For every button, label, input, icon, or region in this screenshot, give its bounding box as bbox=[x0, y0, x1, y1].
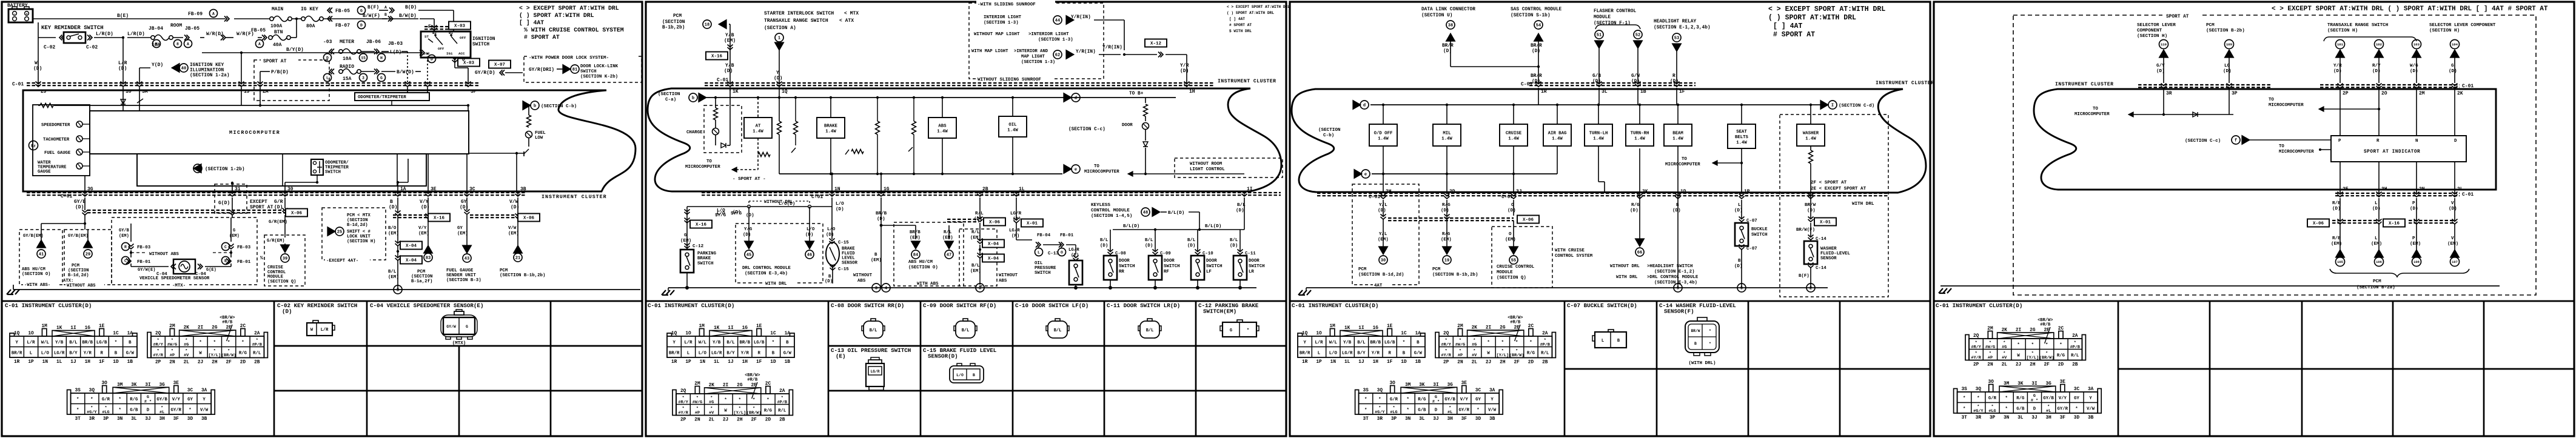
svg-text:Y: Y bbox=[15, 340, 18, 345]
svg-text:2K: 2K bbox=[2457, 91, 2463, 96]
svg-text:(BR/W): (BR/W) bbox=[221, 353, 236, 358]
svg-text:OFF: OFF bbox=[438, 47, 444, 51]
svg-text:(F): (F) bbox=[1011, 234, 1019, 239]
svg-text:30: 30 bbox=[1381, 259, 1386, 264]
svg-text:SPEEDOMETER: SPEEDOMETER bbox=[41, 123, 70, 128]
svg-text:3A: 3A bbox=[201, 388, 207, 393]
svg-text:3: 3 bbox=[397, 288, 399, 293]
svg-text:(EM): (EM) bbox=[1441, 237, 1452, 242]
wire 2A bbox=[260, 71, 261, 83]
svg-text:(SECTION C-c): (SECTION C-c) bbox=[2185, 139, 2221, 144]
svg-text:B/L: B/L bbox=[1100, 238, 1109, 243]
svg-text:*: * bbox=[2031, 343, 2034, 348]
svg-text:(SECTION C-c): (SECTION C-c) bbox=[1068, 127, 1105, 132]
svg-text:B/L: B/L bbox=[388, 270, 397, 274]
svg-text:-WITH ABS-: -WITH ABS- bbox=[24, 283, 50, 288]
microcomputer U1 bbox=[90, 111, 469, 154]
page 3 border frame bbox=[1290, 2, 1930, 436]
svg-text:*: * bbox=[118, 397, 121, 402]
abs check components bbox=[876, 121, 880, 134]
svg-text:2J: 2J bbox=[198, 360, 203, 365]
svg-text:X-06: X-06 bbox=[1523, 218, 1534, 223]
svg-text:R/L: R/L bbox=[2071, 354, 2079, 359]
svg-text:3P: 3P bbox=[2232, 91, 2238, 96]
svg-text:FB-01: FB-01 bbox=[137, 260, 151, 265]
svg-text:#P: #P bbox=[1458, 353, 1463, 358]
svg-text:2N: 2N bbox=[694, 418, 700, 423]
svg-text:A: A bbox=[187, 42, 189, 46]
svg-text:1.4W: 1.4W bbox=[1634, 136, 1645, 141]
svg-text:2F: 2F bbox=[226, 360, 232, 365]
svg-text:#Y/R: #Y/R bbox=[1971, 356, 1981, 360]
svg-text:[ ] 4AT: [ ] 4AT bbox=[519, 19, 544, 26]
svg-text:B: B bbox=[973, 373, 975, 377]
svg-text:(SECTION: (SECTION bbox=[68, 268, 89, 273]
svg-text:*: * bbox=[1709, 342, 1711, 346]
svg-text:1F: 1F bbox=[1387, 360, 1393, 365]
wire B/L(D) distribution bbox=[1113, 229, 1244, 230]
svg-text:1H: 1H bbox=[85, 360, 91, 365]
svg-text:*: * bbox=[724, 398, 726, 403]
svg-text:B/Y(D): B/Y(D) bbox=[286, 47, 304, 53]
svg-text:3P: 3P bbox=[103, 417, 109, 422]
svg-text:(SECTION: (SECTION bbox=[411, 274, 432, 279]
dashed box WITH POWER DOOR LOCK SYSTEM bbox=[524, 56, 642, 82]
svg-text:GY/R: GY/R bbox=[1459, 408, 1470, 413]
svg-text:1A: 1A bbox=[785, 331, 791, 336]
svg-text:1O: 1O bbox=[685, 331, 691, 336]
svg-text:3Q: 3Q bbox=[89, 388, 95, 393]
svg-text:FUEL: FUEL bbox=[535, 131, 546, 136]
svg-text:1P: 1P bbox=[1316, 360, 1322, 365]
svg-text:B/L: B/L bbox=[1230, 238, 1238, 243]
connector X-03 lower bbox=[458, 59, 480, 67]
wire 31/30 drops bbox=[232, 183, 233, 193]
svg-text:Y: Y bbox=[203, 397, 206, 402]
svg-text:(SECTION: (SECTION bbox=[347, 218, 368, 223]
svg-text:Y/B: Y/B bbox=[725, 63, 734, 68]
svg-text:P: P bbox=[2412, 201, 2415, 206]
svg-text:(D): (D) bbox=[1187, 244, 1195, 248]
svg-text:2B: 2B bbox=[2072, 363, 2078, 368]
svg-text:3S: 3S bbox=[1962, 387, 1968, 392]
svg-text:3K: 3K bbox=[2018, 382, 2024, 386]
svg-text:PCM: PCM bbox=[1358, 267, 1367, 272]
svg-text:2J: 2J bbox=[723, 418, 728, 423]
svg-text:DOOR: DOOR bbox=[1122, 123, 1133, 128]
svg-text:15: 15 bbox=[361, 56, 366, 60]
svg-text:(D): (D) bbox=[2223, 69, 2232, 74]
svg-text:L: L bbox=[1038, 250, 1040, 254]
section 1-2b box bbox=[137, 154, 426, 186]
svg-text:Y/R(IN): Y/R(IN) bbox=[1076, 50, 1096, 55]
svg-text:3N: 3N bbox=[2004, 416, 2010, 420]
svg-text:3R: 3R bbox=[1377, 417, 1383, 422]
svg-text:G/R: G/R bbox=[1988, 396, 1997, 401]
svg-text:2F: 2F bbox=[2044, 363, 2050, 368]
svg-text:3G: 3G bbox=[1447, 383, 1453, 388]
cruise control module dashed box bbox=[1492, 227, 1552, 288]
svg-text:W/G: W/G bbox=[2410, 64, 2418, 68]
node C-01 pin 1P bbox=[1739, 194, 1745, 199]
svg-text:R: R bbox=[2376, 139, 2380, 144]
wire pin drops into cluster bbox=[38, 83, 39, 105]
svg-text:C: C bbox=[124, 259, 127, 263]
svg-text:1P: 1P bbox=[28, 360, 34, 365]
svg-text:105: 105 bbox=[2337, 260, 2343, 264]
svg-text:9: 9 bbox=[1677, 287, 1679, 291]
svg-text:Y/G: Y/G bbox=[744, 227, 753, 232]
node C-01 pin 30 bbox=[283, 191, 288, 197]
svg-text:PCM: PCM bbox=[1432, 267, 1441, 272]
svg-text:WITHOUT ROOM: WITHOUT ROOM bbox=[1190, 162, 1223, 167]
svg-text:SEAT: SEAT bbox=[1736, 130, 1747, 134]
svg-text:G: G bbox=[360, 8, 363, 13]
svg-text:2M: 2M bbox=[2419, 91, 2425, 96]
svg-text:DRL CONTROL MODULE: DRL CONTROL MODULE bbox=[742, 266, 791, 271]
connector C-09 door switch icon bbox=[956, 321, 975, 338]
svg-text:R/L: R/L bbox=[1541, 351, 1549, 356]
svg-text:Y/R: Y/R bbox=[2333, 64, 2342, 68]
svg-text:X-01: X-01 bbox=[1027, 222, 1038, 227]
svg-text:3H: 3H bbox=[1447, 417, 1453, 422]
svg-text:R/Y: R/Y bbox=[2372, 64, 2381, 68]
svg-text:D: D bbox=[360, 23, 363, 27]
svg-text:B/W(D): B/W(D) bbox=[399, 13, 417, 19]
svg-text:3D: 3D bbox=[1475, 417, 1481, 422]
svg-text:WITH DRL: WITH DRL bbox=[765, 282, 787, 287]
rail e arrow bbox=[1361, 170, 1370, 178]
svg-text:1B: 1B bbox=[127, 360, 133, 365]
svg-text:*: * bbox=[1963, 407, 1965, 412]
svg-text:C-07 BUCKLE SWITCH(D): C-07 BUCKLE SWITCH(D) bbox=[1567, 302, 1637, 309]
svg-text:B/Y: B/Y bbox=[726, 351, 735, 356]
svg-text:1K: 1K bbox=[1344, 326, 1350, 331]
svg-text:3I: 3I bbox=[145, 383, 151, 388]
svg-text:3S: 3S bbox=[75, 388, 81, 393]
svg-text:BUCKLE: BUCKLE bbox=[1751, 227, 1768, 232]
svg-text:2K: 2K bbox=[184, 326, 190, 331]
svg-text:ROOM: ROOM bbox=[170, 23, 182, 28]
svg-text:Y: Y bbox=[673, 340, 676, 345]
ground rail bbox=[1940, 285, 2500, 287]
svg-text:45: 45 bbox=[746, 253, 751, 258]
svg-text:ST: ST bbox=[424, 35, 429, 39]
svg-text:3Q: 3Q bbox=[1377, 388, 1383, 393]
svg-text:L/R: L/R bbox=[684, 340, 693, 345]
svg-text:1L: 1L bbox=[714, 360, 720, 365]
svg-text:R/B: R/B bbox=[2332, 236, 2341, 241]
svg-text:GY/W: GY/W bbox=[446, 325, 456, 329]
svg-text:B/W(F): B/W(F) bbox=[363, 13, 380, 19]
svg-text:1P: 1P bbox=[1744, 189, 1750, 194]
svg-text:%: % bbox=[260, 256, 263, 261]
svg-text:3P: 3P bbox=[1990, 416, 1996, 420]
svg-text:B/L(D): B/L(D) bbox=[1123, 224, 1139, 229]
svg-text:1.4W: 1.4W bbox=[1593, 136, 1604, 141]
svg-text:1L: 1L bbox=[56, 360, 62, 365]
svg-text:*: * bbox=[2017, 343, 2019, 348]
node C-01 pin 1R bbox=[1536, 82, 1541, 87]
svg-text:1K: 1K bbox=[733, 89, 739, 94]
svg-text:B: B bbox=[786, 340, 789, 345]
svg-text:CRUISE: CRUISE bbox=[1506, 131, 1522, 136]
svg-text:#W/G: #W/G bbox=[693, 400, 702, 405]
svg-text:COMPONENT: COMPONENT bbox=[2137, 28, 2162, 33]
svg-text:62: 62 bbox=[1055, 53, 1060, 58]
svg-text:< > EXCEPT SPORT AT:WITH DRL: < > EXCEPT SPORT AT:WITH DRL bbox=[1227, 5, 1290, 9]
svg-text:2D: 2D bbox=[240, 360, 246, 365]
svg-text:(SECTION Q): (SECTION Q) bbox=[1497, 276, 1526, 280]
svg-text:2A: 2A bbox=[1542, 331, 1548, 336]
svg-text:ABS HU/CM: ABS HU/CM bbox=[22, 267, 45, 272]
svg-text:BR/B: BR/B bbox=[740, 340, 751, 345]
svg-text:X-04: X-04 bbox=[988, 242, 999, 247]
connector C-02 key reminder switch icon bbox=[307, 323, 332, 336]
svg-text:83: 83 bbox=[426, 256, 431, 261]
svg-text:B/W(D): B/W(D) bbox=[397, 70, 414, 75]
svg-text:B/L: B/L bbox=[870, 328, 877, 333]
svg-text:IG KEY: IG KEY bbox=[301, 7, 318, 12]
svg-text:1.4W: 1.4W bbox=[825, 129, 836, 134]
svg-text:(D): (D) bbox=[1180, 68, 1189, 74]
svg-text:>HEADLIGHT SWITCH: >HEADLIGHT SWITCH bbox=[1647, 264, 1692, 269]
connector C-13 oil pressure switch icon bbox=[866, 363, 884, 386]
svg-text:JB-04: JB-04 bbox=[149, 26, 163, 31]
svg-text:3T: 3T bbox=[75, 417, 81, 422]
svg-text:1K: 1K bbox=[714, 326, 720, 331]
svg-text:CONTROL MODULE: CONTROL MODULE bbox=[1091, 208, 1130, 213]
svg-text:V: V bbox=[2451, 236, 2454, 241]
svg-text:2L: 2L bbox=[709, 418, 715, 423]
charge warning circuit bbox=[704, 105, 742, 153]
wire Y(D) ignition key illumination bbox=[139, 68, 140, 83]
connector C-01 block 2x pin grid bbox=[1969, 339, 2082, 360]
svg-text:RR: RR bbox=[1119, 270, 1124, 274]
svg-text:#R/B: #R/B bbox=[222, 320, 233, 325]
svg-text:3B: 3B bbox=[520, 187, 526, 192]
svg-text:VEHICLE SPEEDOMETER SENSOR: VEHICLE SPEEDOMETER SENSOR bbox=[139, 276, 210, 281]
svg-text:1O: 1O bbox=[1316, 331, 1322, 336]
svg-text:DOOR: DOOR bbox=[1206, 259, 1217, 264]
svg-text:X-16: X-16 bbox=[696, 223, 707, 228]
svg-text:2M: 2M bbox=[694, 382, 700, 386]
svg-text:(SECTION C-b): (SECTION C-b) bbox=[541, 104, 577, 109]
svg-text:(D): (D) bbox=[1145, 244, 1153, 248]
svg-text:LG/B: LG/B bbox=[1384, 340, 1395, 345]
svg-text:DOOR: DOOR bbox=[1249, 259, 1259, 264]
svg-text:< > EXCEPT SPORT AT:WITH DRL: < > EXCEPT SPORT AT:WITH DRL ( ) SPORT A… bbox=[2272, 5, 2548, 13]
svg-text:W/L: W/L bbox=[1329, 340, 1337, 345]
svg-text:3O: 3O bbox=[1390, 381, 1396, 386]
svg-text:PCM: PCM bbox=[673, 14, 682, 19]
svg-text:2L: 2L bbox=[2002, 363, 2008, 368]
svg-text:< ATX: < ATX bbox=[839, 18, 854, 24]
svg-text:(D): (D) bbox=[2449, 207, 2457, 211]
svg-text:2D: 2D bbox=[1528, 360, 1534, 365]
svg-text:#R/Y: #R/Y bbox=[1441, 343, 1451, 348]
svg-text:LG/R: LG/R bbox=[1009, 228, 1020, 233]
svg-text:3S: 3S bbox=[1363, 388, 1369, 393]
connector C-14 washer fluid-level sensor icon bbox=[1685, 321, 1719, 353]
svg-text:G/W: G/W bbox=[1414, 351, 1423, 356]
svg-text:1H: 1H bbox=[1189, 89, 1195, 94]
svg-text:*: * bbox=[739, 398, 741, 403]
svg-text:WITH ABS: WITH ABS bbox=[917, 282, 939, 287]
svg-text:B(E): B(E) bbox=[117, 13, 129, 19]
svg-text:1H: 1H bbox=[1373, 360, 1379, 365]
svg-text:PCM: PCM bbox=[2373, 279, 2381, 284]
svg-text:X-06: X-06 bbox=[291, 211, 303, 216]
fuse MAIN 100A bbox=[234, 18, 270, 19]
svg-text:(EM): (EM) bbox=[2410, 242, 2421, 247]
svg-text:(D): (D) bbox=[118, 66, 127, 71]
svg-text:BRAKE: BRAKE bbox=[824, 124, 838, 128]
dashed box PCM ATX:WITHOUT ABS bbox=[64, 230, 112, 285]
svg-text:LG/B: LG/B bbox=[754, 340, 765, 345]
svg-text:G/B: G/B bbox=[1592, 74, 1601, 79]
svg-text:b: b bbox=[692, 96, 694, 101]
connector C-04 vehicle speedometer sensor icon bbox=[443, 317, 475, 334]
svg-text:V/Y: V/Y bbox=[172, 397, 181, 402]
svg-text:B-1d,2d): B-1d,2d) bbox=[347, 223, 368, 228]
svg-text:3L: 3L bbox=[131, 417, 137, 422]
svg-text:*: * bbox=[766, 398, 769, 403]
dashed box ABS HU/CM bbox=[19, 230, 62, 285]
svg-text:MAP LIGHT: MAP LIGHT bbox=[1021, 55, 1045, 59]
svg-text:(D): (D) bbox=[274, 205, 283, 210]
svg-text:(EM): (EM) bbox=[1505, 237, 1516, 242]
node C-01 pin 2J bbox=[36, 82, 41, 87]
svg-text:(EM): (EM) bbox=[2447, 242, 2458, 247]
svg-text:#R/B: #R/B bbox=[1510, 320, 1521, 325]
svg-text:(SECTION S-1b): (SECTION S-1b) bbox=[1511, 13, 1551, 18]
svg-text:2A: 2A bbox=[2072, 334, 2078, 339]
svg-text:3F: 3F bbox=[173, 417, 179, 422]
svg-text:1I: 1I bbox=[1247, 187, 1253, 192]
svg-text:LEVEL: LEVEL bbox=[842, 256, 855, 261]
node C-01 pin 1L bbox=[1014, 191, 1019, 197]
svg-text:3: 3 bbox=[362, 76, 364, 80]
svg-text:2P: 2P bbox=[1973, 363, 1979, 368]
svg-text:TO: TO bbox=[1094, 164, 1099, 169]
svg-text:*: * bbox=[199, 340, 201, 345]
svg-text:C-01: C-01 bbox=[12, 82, 24, 87]
svg-text:3E: 3E bbox=[2060, 380, 2066, 385]
svg-text:ABS HU/CM: ABS HU/CM bbox=[908, 260, 933, 265]
svg-text:(D): (D) bbox=[1807, 208, 1816, 213]
svg-text:1J: 1J bbox=[728, 360, 733, 365]
svg-text:(SECTION 1-2a): (SECTION 1-2a) bbox=[190, 73, 230, 78]
svg-text:2P: 2P bbox=[680, 418, 686, 423]
svg-text:L/R(D): L/R(D) bbox=[96, 31, 113, 37]
connector C-01 block 2x pin grid bbox=[1439, 336, 1552, 358]
svg-text:L: L bbox=[326, 76, 329, 80]
wire L/R(D) to pin 1O bbox=[122, 38, 124, 83]
svg-text:2O: 2O bbox=[2381, 91, 2387, 96]
svg-text:C-08 DOOR SWITCH RR(D): C-08 DOOR SWITCH RR(D) bbox=[831, 302, 904, 309]
svg-text:METER: METER bbox=[340, 39, 354, 45]
svg-text:B/Y: B/Y bbox=[69, 351, 78, 356]
cluster inner rail bbox=[54, 105, 468, 106]
svg-text:V/Y: V/Y bbox=[2059, 396, 2067, 401]
svg-text:3K: 3K bbox=[131, 383, 137, 388]
node C-01 pin 3A bbox=[137, 82, 143, 87]
ground G1 bbox=[13, 289, 640, 290]
svg-text:D: D bbox=[2033, 407, 2036, 412]
svg-text:3M: 3M bbox=[2004, 382, 2010, 386]
svg-text:GY: GY bbox=[457, 226, 463, 231]
svg-text:29: 29 bbox=[86, 253, 90, 257]
svg-text:(BR/W): (BR/W) bbox=[2039, 356, 2054, 360]
svg-text:2M: 2M bbox=[1457, 324, 1463, 329]
svg-text:2L: 2L bbox=[184, 360, 190, 365]
svg-text:C-01: C-01 bbox=[717, 78, 728, 83]
svg-text:1C: 1C bbox=[1401, 331, 1407, 336]
without room light control dashed box bbox=[1175, 158, 1283, 177]
svg-text:1M: 1M bbox=[41, 324, 47, 329]
svg-text:V: V bbox=[2451, 201, 2454, 206]
svg-text:X-03: X-03 bbox=[454, 24, 466, 29]
svg-text:D: D bbox=[147, 408, 150, 413]
svg-text:R: R bbox=[1388, 351, 1391, 356]
svg-text:(D): (D) bbox=[2156, 69, 2165, 74]
svg-text:4: 4 bbox=[885, 287, 887, 291]
svg-text:R/L: R/L bbox=[253, 351, 261, 356]
svg-text:21: 21 bbox=[515, 256, 520, 261]
svg-text:KEYLESS: KEYLESS bbox=[1091, 203, 1110, 208]
svg-text:1Q: 1Q bbox=[782, 89, 788, 94]
fuse MIL 1.4W bbox=[1433, 124, 1461, 146]
svg-text:(SECTION 1-3): (SECTION 1-3) bbox=[1038, 38, 1073, 42]
svg-text:L/O: L/O bbox=[699, 351, 707, 356]
svg-text:V/Y: V/Y bbox=[418, 226, 427, 231]
svg-text:B(F): B(F) bbox=[1799, 274, 1810, 279]
svg-text:(D): (D) bbox=[2410, 69, 2418, 74]
svg-text:2: 2 bbox=[1810, 287, 1812, 291]
svg-text:-EXCEPT 4AT-: -EXCEPT 4AT- bbox=[326, 259, 358, 264]
svg-text:GY/W(E): GY/W(E) bbox=[138, 268, 155, 273]
svg-text:1D: 1D bbox=[1680, 189, 1686, 194]
svg-text:V/Y: V/Y bbox=[1460, 397, 1469, 402]
svg-text:LR: LR bbox=[1249, 270, 1254, 274]
svg-text:(SECTION 1-3): (SECTION 1-3) bbox=[1021, 60, 1055, 65]
svg-text:47: 47 bbox=[947, 253, 951, 258]
ground node 3 bbox=[394, 285, 402, 294]
svg-text:R/L: R/L bbox=[975, 211, 984, 216]
svg-text:#Y/R: #Y/R bbox=[1441, 353, 1451, 358]
ground rail bbox=[668, 287, 1256, 288]
svg-text:(D): (D) bbox=[33, 66, 42, 71]
svg-text:#G/Y: #G/Y bbox=[1375, 410, 1385, 415]
svg-text:1L: 1L bbox=[1344, 360, 1350, 365]
svg-text:G/W: G/W bbox=[1631, 74, 1640, 79]
svg-text:1A: 1A bbox=[1415, 331, 1421, 336]
svg-text:3L: 3L bbox=[2018, 416, 2024, 420]
svg-text:2Q: 2Q bbox=[1443, 331, 1449, 336]
svg-text:(SECTION H): (SECTION H) bbox=[2137, 34, 2167, 39]
svg-text:2N: 2N bbox=[1457, 360, 1463, 365]
svg-text:3Q: 3Q bbox=[1976, 387, 1982, 392]
svg-text:3I: 3I bbox=[2031, 382, 2038, 386]
svg-text:BR/R: BR/R bbox=[1300, 351, 1310, 356]
fuse BEAM 1.4W bbox=[1664, 124, 1692, 146]
svg-text:P: P bbox=[2412, 236, 2415, 241]
svg-text:25: 25 bbox=[337, 230, 342, 235]
svg-text:[ ] 4AT: [ ] 4AT bbox=[1773, 22, 1802, 30]
svg-text:B/L: B/L bbox=[1146, 328, 1154, 333]
svg-text:X-16: X-16 bbox=[711, 55, 723, 59]
